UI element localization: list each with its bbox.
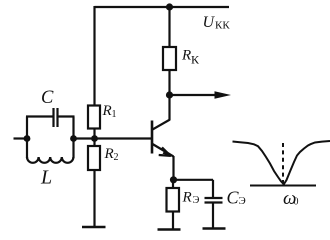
ground CE [203,227,226,229]
resistor RE [167,188,180,212]
wire input stub [14,137,28,139]
wire R1 to node [93,129,95,147]
capacitor C [52,108,54,127]
transistor VT collector diagonal [153,120,171,130]
output arrowhead [215,91,232,98]
wire CE bottom [212,204,214,229]
svg-text:КК: КК [215,20,230,32]
wire tank top left [26,115,53,117]
resistor R2 [88,146,100,170]
svg-text:1: 1 [112,109,117,120]
svg-text:R: R [181,48,191,64]
svg-text:2: 2 [114,152,119,163]
wire tank top right [58,115,75,117]
wire node to RE [172,180,174,188]
node tank right [70,135,77,142]
wire collector branch top [168,7,170,47]
wire emitter node to CE [174,179,214,181]
resistor R1 [88,106,100,129]
wire R1 branch top [93,6,95,106]
inductor L [27,157,73,163]
wire CE top [212,180,214,197]
svg-text:C: C [41,88,54,108]
capacitor CE [205,197,223,199]
svg-text:R: R [102,103,112,119]
svg-text:Э: Э [239,195,246,207]
ground RE [158,228,181,230]
resistor RK [163,47,176,70]
wire top rail [95,6,230,8]
wire collector vertical [168,95,170,120]
svg-text:К: К [191,53,200,67]
node base-divider junction [91,135,98,142]
wire tank left side [26,117,28,159]
transistor VT emitter arrowhead [162,147,171,156]
svg-text:Э: Э [193,195,200,206]
wire emitter vertical [172,156,174,180]
node tank left [24,135,31,142]
wire RE to ground [172,212,174,230]
wire base rail [74,137,152,139]
axis omega [250,185,316,187]
wire R2 to ground [93,170,95,227]
dashed line at omega0 [282,143,284,183]
svg-text:0: 0 [294,197,299,208]
ground R2 [82,226,106,228]
node top rail junction [166,3,173,10]
wire RK to collector node [168,70,170,95]
svg-text:U: U [203,14,216,31]
node emitter [170,176,177,183]
node collector output [166,91,173,98]
wire output [170,94,217,96]
svg-text:R: R [104,146,114,162]
transistor VT emitter diagonal [153,144,174,157]
svg-text:L: L [40,167,52,189]
transistor VT base bar [151,121,154,154]
curve response notch [233,141,330,184]
svg-text:R: R [182,190,192,206]
wire tank right side [72,117,74,159]
